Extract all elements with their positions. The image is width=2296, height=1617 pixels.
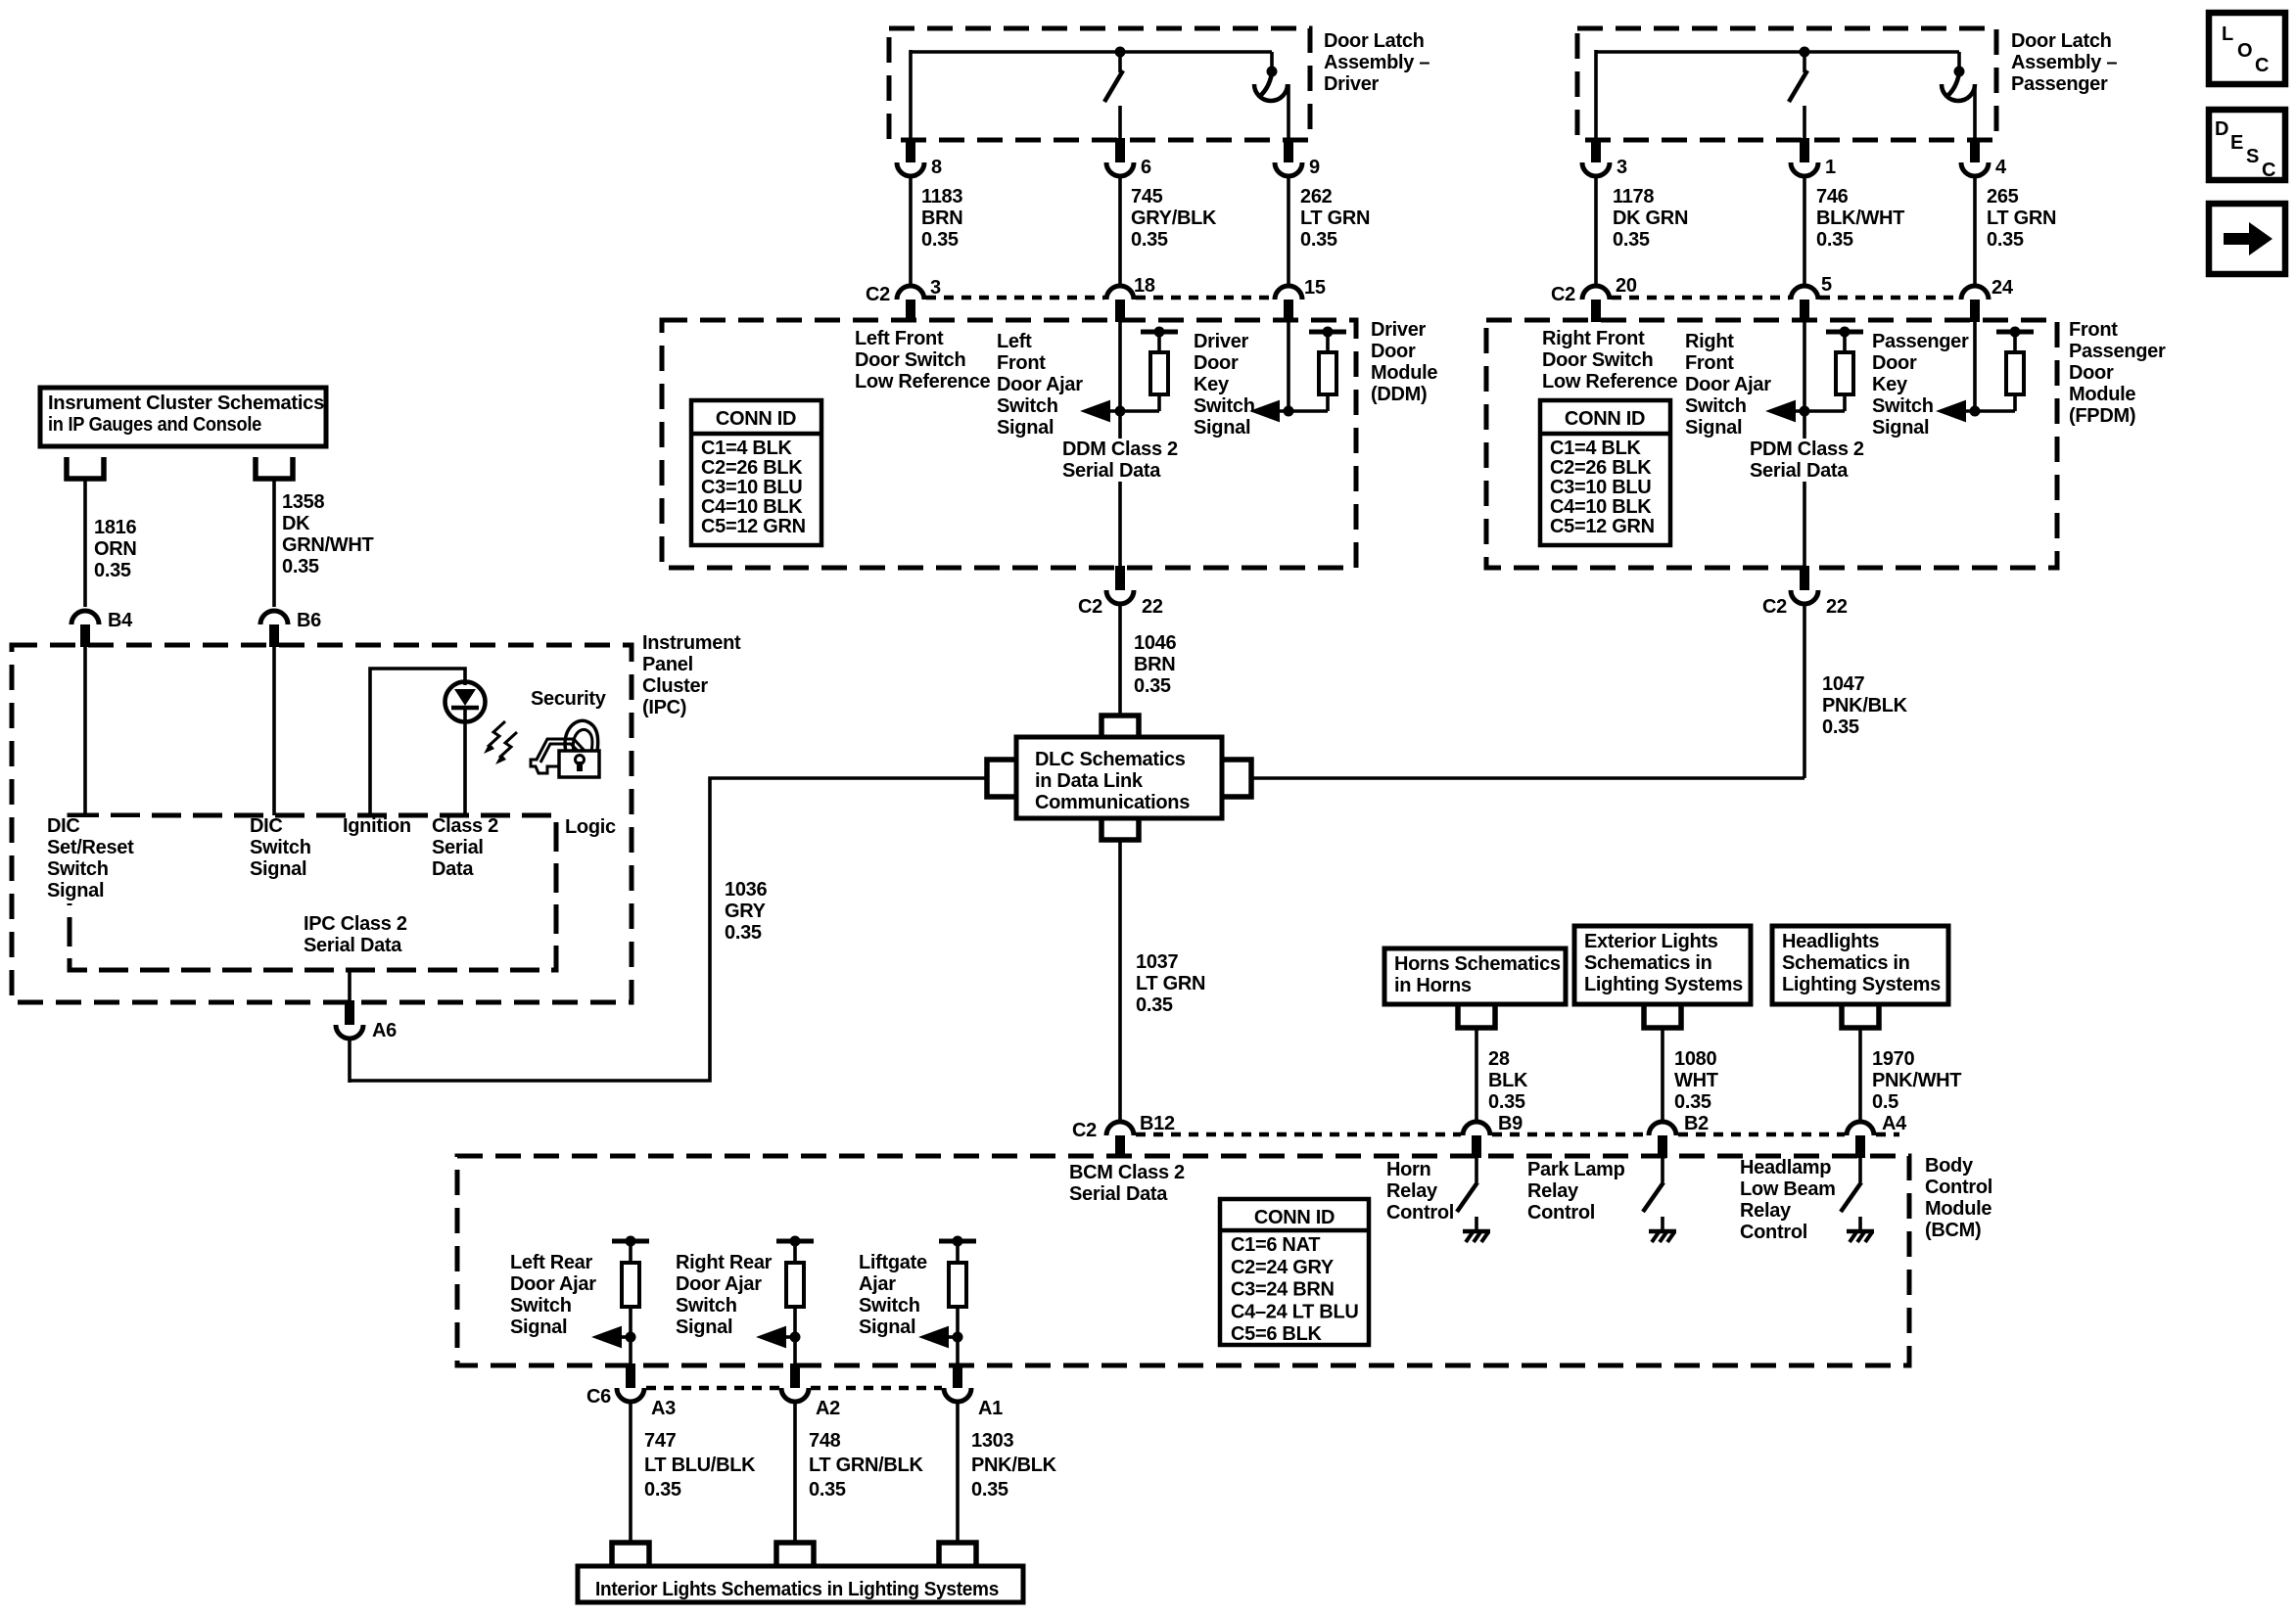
svg-text:0.35: 0.35 — [725, 922, 762, 944]
switch: park lamp relay control — [1643, 1156, 1676, 1242]
LED emission arrows — [484, 721, 517, 764]
svg-text:C1=4 BLK: C1=4 BLK — [701, 438, 792, 459]
table: CONN ID (DDM) — [691, 400, 821, 545]
node: driver latch junction — [1115, 47, 1126, 58]
svg-text:Door Ajar: Door Ajar — [510, 1273, 596, 1295]
switch: horn relay control — [1457, 1156, 1490, 1242]
switch: passenger door ajar switch blade — [1947, 73, 1959, 96]
connector C2 pin 18 (DDM) — [1106, 275, 1155, 322]
wire: passenger key switch junction with arrow — [1939, 401, 2015, 421]
svg-text:Body: Body — [1925, 1155, 1974, 1177]
label: Ignition — [343, 815, 411, 837]
svg-text:22: 22 — [1142, 596, 1163, 618]
svg-text:PDM Class 2: PDM Class 2 — [1750, 439, 1864, 460]
svg-text:Passenger: Passenger — [1872, 331, 1969, 352]
box: Driver Door Module DDM (dashed) — [662, 320, 1356, 568]
wire: DDM pin 15 internal — [1287, 320, 1290, 411]
box: Body Control Module BCM (dashed) — [457, 1156, 1909, 1365]
svg-text:Driver: Driver — [1371, 319, 1427, 341]
svg-text:Door: Door — [1872, 352, 1917, 374]
svg-text:A6: A6 — [372, 1020, 397, 1041]
connector C2 pin 22 (DDM bottom) — [1078, 566, 1163, 618]
connector bracket: IC box right drop — [256, 457, 293, 479]
svg-text:(FPDM): (FPDM) — [2069, 405, 2135, 427]
svg-text:Door Ajar: Door Ajar — [1685, 374, 1771, 395]
svg-text:LT GRN: LT GRN — [1300, 208, 1370, 229]
svg-text:28: 28 — [1488, 1048, 1510, 1070]
svg-text:Horns Schematics: Horns Schematics — [1394, 953, 1561, 975]
connector C6 A1 (BCM bottom) — [944, 1363, 1003, 1419]
svg-text:Control: Control — [1386, 1202, 1454, 1224]
svg-text:C2: C2 — [1551, 284, 1575, 305]
svg-text:in Data Link: in Data Link — [1035, 770, 1144, 792]
resistor: Left Rear Door Ajar pull-up — [612, 1236, 649, 1338]
svg-text:0.35: 0.35 — [1488, 1091, 1525, 1113]
wire: ignition branch — [370, 669, 465, 815]
wire 746 BLK/WHT 0.35 — [1804, 176, 1904, 285]
svg-text:1178: 1178 — [1613, 186, 1654, 208]
connector C2 pin 5 (PDM) — [1791, 274, 1832, 322]
svg-text:Switch: Switch — [1872, 395, 1934, 417]
svg-text:C1=6 NAT: C1=6 NAT — [1231, 1234, 1320, 1256]
svg-text:C2=26 BLK: C2=26 BLK — [1550, 457, 1652, 479]
box: Headlights Schematics in Lighting Systems — [1772, 926, 1948, 1004]
label: PDM Class 2 Serial Data — [1747, 439, 1874, 482]
svg-text:Door: Door — [1194, 352, 1239, 374]
svg-text:Schematics in: Schematics in — [1782, 952, 1910, 974]
svg-text:BRN: BRN — [921, 208, 962, 229]
svg-text:BCM Class 2: BCM Class 2 — [1069, 1162, 1185, 1183]
svg-text:Interior Lights Schematics in: Interior Lights Schematics in Lighting S… — [595, 1579, 999, 1600]
svg-text:Module: Module — [1925, 1198, 1991, 1220]
svg-text:20: 20 — [1616, 275, 1637, 297]
resistor: Right Rear Door Ajar pull-up — [776, 1236, 814, 1338]
svg-text:1303: 1303 — [971, 1430, 1013, 1452]
svg-text:Switch: Switch — [1685, 395, 1747, 417]
label: Body Control Module (BCM) — [1925, 1155, 1992, 1241]
svg-text:Signal: Signal — [997, 417, 1054, 439]
svg-text:Exterior Lights: Exterior Lights — [1584, 931, 1718, 952]
connector row dotted line (DDM C2) — [926, 296, 1273, 300]
svg-text:Switch: Switch — [859, 1295, 920, 1317]
svg-text:Ajar: Ajar — [859, 1273, 896, 1295]
wire: DDM pin 18 serial data internal — [1118, 320, 1122, 568]
svg-text:Signal: Signal — [859, 1317, 915, 1338]
resistor: Liftgate Ajar pull-up — [939, 1236, 976, 1338]
svg-text:C3=24 BRN: C3=24 BRN — [1231, 1279, 1335, 1301]
connector C2 pin 20 (PDM) — [1551, 275, 1637, 322]
svg-text:Park Lamp: Park Lamp — [1527, 1159, 1625, 1180]
svg-text:D: D — [2215, 118, 2228, 140]
wire: driver latch internal bus — [911, 50, 1272, 140]
svg-text:Key: Key — [1872, 374, 1908, 395]
svg-text:DK GRN: DK GRN — [1613, 208, 1688, 229]
connector B6 (IPC) — [260, 610, 321, 647]
wire: Liftgate ajar junction with arrow — [921, 1327, 963, 1347]
svg-text:C: C — [2262, 160, 2275, 181]
box: Door Latch Assembly - Passenger (dashed) — [1577, 28, 1996, 140]
label: Left Rear Door Ajar Switch Signal — [510, 1252, 596, 1338]
svg-text:0.35: 0.35 — [1613, 229, 1650, 251]
svg-text:Logic: Logic — [565, 816, 616, 838]
connector bracket: interior lights drop A2 — [776, 1543, 814, 1566]
svg-text:C5=6 BLK: C5=6 BLK — [1231, 1323, 1322, 1345]
svg-text:S: S — [2246, 146, 2259, 167]
svg-text:Switch: Switch — [47, 858, 109, 880]
svg-text:1183: 1183 — [921, 186, 962, 208]
svg-text:Assembly –: Assembly – — [1324, 52, 1429, 73]
svg-text:6: 6 — [1141, 157, 1151, 178]
svg-text:DIC: DIC — [250, 815, 283, 837]
svg-text:Front: Front — [997, 352, 1046, 374]
svg-text:Assembly –: Assembly – — [2011, 52, 2117, 73]
svg-text:ORN: ORN — [94, 538, 137, 560]
svg-text:262: 262 — [1300, 186, 1333, 208]
svg-text:0.35: 0.35 — [94, 560, 131, 581]
svg-text:1080: 1080 — [1674, 1048, 1716, 1070]
svg-text:Right: Right — [1685, 331, 1734, 352]
svg-text:A3: A3 — [651, 1398, 676, 1419]
wire: B4 to logic box — [83, 645, 87, 815]
svg-text:WHT: WHT — [1674, 1070, 1718, 1091]
svg-text:0.35: 0.35 — [644, 1479, 681, 1501]
svg-text:L: L — [2222, 23, 2233, 45]
connector pin 1 (passenger latch) — [1791, 138, 1836, 178]
icon: security car and padlock — [531, 720, 599, 777]
svg-text:Instrument: Instrument — [642, 632, 741, 654]
connector pin 6 (driver latch) — [1106, 138, 1151, 178]
svg-text:Set/Reset: Set/Reset — [47, 837, 134, 858]
svg-text:Right Front: Right Front — [1542, 328, 1645, 349]
svg-text:C4=10 BLK: C4=10 BLK — [1550, 496, 1652, 518]
label: Passenger Door Key Switch Signal — [1872, 331, 1969, 439]
svg-text:Driver: Driver — [1324, 73, 1380, 95]
label: Front Passenger Door Module (FPDM) — [2069, 319, 2166, 427]
svg-text:LT GRN: LT GRN — [1136, 973, 1205, 994]
svg-text:DK: DK — [282, 513, 310, 534]
label: Driver Door Module (DDM) — [1371, 319, 1437, 405]
svg-text:0.35: 0.35 — [921, 229, 959, 251]
svg-text:Door: Door — [1371, 341, 1416, 362]
svg-text:(DDM): (DDM) — [1371, 384, 1427, 405]
svg-text:3: 3 — [930, 277, 941, 299]
wire 28 BLK 0.35 — [1476, 1028, 1528, 1122]
resistor: right front door ajar pull-up — [1826, 327, 1863, 412]
svg-text:Door: Door — [2069, 362, 2114, 384]
label: Left Front Door Ajar Switch Signal — [997, 331, 1083, 439]
connector C2 pin 15 (DDM) — [1275, 277, 1326, 322]
svg-text:LT BLU/BLK: LT BLU/BLK — [644, 1455, 756, 1476]
table: CONN ID (PDM) — [1540, 400, 1670, 545]
svg-text:Serial Data: Serial Data — [304, 935, 402, 956]
svg-text:B4: B4 — [108, 610, 133, 631]
wire: Liftgate signal to C6 row — [956, 1337, 960, 1365]
svg-text:PNK/WHT: PNK/WHT — [1872, 1070, 1961, 1091]
svg-text:C: C — [2255, 55, 2269, 76]
svg-text:(BCM): (BCM) — [1925, 1220, 1981, 1241]
svg-text:Lighting Systems: Lighting Systems — [1782, 974, 1941, 995]
connector row dotted line (BCM top) — [1136, 1132, 1899, 1137]
connector pin 3 (passenger latch) — [1582, 138, 1627, 178]
svg-text:Left Front: Left Front — [855, 328, 944, 349]
wire 262 LT GRN 0.35 — [1289, 176, 1370, 285]
svg-text:B2: B2 — [1684, 1113, 1709, 1134]
svg-text:Low Reference: Low Reference — [855, 371, 991, 393]
svg-text:24: 24 — [1991, 277, 2014, 299]
wire: PDM pin 24 internal — [1973, 320, 1977, 411]
svg-text:0.35: 0.35 — [1134, 675, 1171, 697]
svg-text:Security: Security — [531, 688, 607, 710]
icon box: forward arrow — [2209, 204, 2285, 274]
svg-text:0.35: 0.35 — [282, 556, 319, 577]
connector A4 (BCM) — [1847, 1113, 1907, 1158]
svg-text:745: 745 — [1131, 186, 1163, 208]
connector C2 pin 22 (PDM bottom) — [1762, 566, 1848, 618]
wire 1047 PNK/BLK 0.35 — [1804, 604, 1908, 778]
svg-text:Control: Control — [1740, 1222, 1807, 1243]
connector row dotted line (BCM bottom C6) — [646, 1386, 942, 1391]
svg-text:(IPC): (IPC) — [642, 697, 686, 718]
svg-text:C6: C6 — [586, 1386, 611, 1408]
svg-text:Switch: Switch — [1194, 395, 1255, 417]
switch: headlamp low beam relay control — [1841, 1156, 1874, 1242]
svg-text:3: 3 — [1617, 157, 1627, 178]
svg-text:C2=24 GRY: C2=24 GRY — [1231, 1257, 1335, 1278]
label: Driver Door Key Switch Signal — [1194, 331, 1255, 439]
svg-text:C4=10 BLK: C4=10 BLK — [701, 496, 803, 518]
svg-text:Communications: Communications — [1035, 792, 1190, 813]
box: Exterior Lights Schematics in Lighting Systems — [1574, 926, 1751, 1004]
svg-text:Door Switch: Door Switch — [1542, 349, 1653, 371]
wire 1183 BRN 0.35 — [911, 176, 962, 285]
label: Horn Relay Control — [1386, 1159, 1454, 1224]
svg-text:IPC Class 2: IPC Class 2 — [304, 913, 407, 935]
svg-text:Switch: Switch — [676, 1295, 737, 1317]
svg-text:0.35: 0.35 — [1816, 229, 1853, 251]
label: Class 2 Serial Data — [432, 815, 498, 880]
connector B4 (IPC) — [71, 610, 133, 647]
svg-text:Door Latch: Door Latch — [1324, 30, 1425, 52]
wire 1080 WHT 0.35 — [1663, 1028, 1718, 1122]
svg-text:C4–24 LT BLU: C4–24 LT BLU — [1231, 1301, 1359, 1322]
svg-text:DLC Schematics: DLC Schematics — [1035, 749, 1186, 770]
svg-text:Relay: Relay — [1740, 1200, 1792, 1222]
svg-text:0.35: 0.35 — [1136, 994, 1173, 1016]
box: Insrument Cluster Schematics in IP Gauges and Console — [40, 388, 326, 446]
wire: Left Rear ajar junction with arrow — [594, 1327, 636, 1347]
svg-text:Serial Data: Serial Data — [1750, 460, 1849, 482]
connector A6 (IPC bottom) — [336, 1000, 397, 1041]
wire 1046 BRN 0.35 — [1120, 604, 1176, 716]
svg-text:GRY: GRY — [725, 901, 767, 922]
node: passenger latch junction — [1800, 47, 1810, 58]
wire 1036 GRY 0.35 (DLC to IPC) — [350, 778, 987, 1081]
svg-text:Signal: Signal — [510, 1317, 567, 1338]
svg-text:CONN ID: CONN ID — [1565, 408, 1645, 430]
connector pin 9 (driver latch) — [1275, 138, 1320, 178]
svg-text:Ignition: Ignition — [343, 815, 411, 837]
switch: passenger door latch switch (pin 1 leg) — [1789, 52, 1807, 140]
svg-text:0.5: 0.5 — [1872, 1091, 1898, 1113]
svg-text:A4: A4 — [1882, 1113, 1907, 1134]
svg-text:Signal: Signal — [250, 858, 306, 880]
svg-text:in Horns: in Horns — [1394, 975, 1472, 996]
box: Instrument Panel Cluster IPC (dashed) — [12, 645, 632, 1002]
switch: driver door latch switch (pin 6 leg) — [1104, 52, 1123, 140]
label: Right Front Door Ajar Switch Signal — [1685, 331, 1771, 439]
svg-text:1: 1 — [1825, 157, 1836, 178]
svg-text:18: 18 — [1134, 275, 1155, 297]
svg-text:Front: Front — [1685, 352, 1734, 374]
label: BCM Class 2 Serial Data — [1069, 1162, 1185, 1205]
connector bracket: exterior lights drop — [1644, 1006, 1681, 1028]
svg-text:0.35: 0.35 — [971, 1479, 1008, 1501]
svg-text:Signal: Signal — [1872, 417, 1929, 439]
wire: A6 to DLC joint — [348, 1039, 351, 1083]
svg-text:PNK/BLK: PNK/BLK — [971, 1455, 1057, 1476]
svg-text:9: 9 — [1309, 157, 1320, 178]
connector C2 B12 (BCM) — [1072, 1113, 1175, 1158]
svg-text:Schematics in: Schematics in — [1584, 952, 1712, 974]
wire 1816 ORN 0.35 — [85, 479, 137, 607]
svg-text:15: 15 — [1304, 277, 1326, 299]
svg-text:Low Reference: Low Reference — [1542, 371, 1678, 393]
connector pin 8 (driver latch) — [897, 138, 942, 178]
svg-text:Data: Data — [432, 858, 474, 880]
svg-text:C1=4 BLK: C1=4 BLK — [1550, 438, 1641, 459]
svg-text:746: 746 — [1816, 186, 1849, 208]
label: C6 connector — [586, 1386, 611, 1408]
wire: IPC class 2 serial data out — [348, 970, 351, 1002]
connector bracket: DLC top — [1101, 716, 1139, 737]
svg-text:0.35: 0.35 — [1822, 716, 1859, 738]
svg-text:1046: 1046 — [1134, 632, 1176, 654]
label: Right Front Door Switch Low Reference — [1542, 328, 1678, 393]
svg-text:8: 8 — [931, 157, 942, 178]
wire 1970 PNK/WHT 0.5 — [1860, 1028, 1961, 1122]
connector bracket: IC box left drop — [67, 457, 104, 479]
wire 745 GRY/BLK 0.35 — [1120, 176, 1217, 285]
wire: B6 to logic box — [272, 645, 276, 815]
svg-text:1816: 1816 — [94, 517, 136, 538]
svg-text:747: 747 — [644, 1430, 677, 1452]
svg-text:C5=12 GRN: C5=12 GRN — [701, 516, 806, 537]
wire: Right Rear ajar junction with arrow — [759, 1327, 801, 1347]
table: CONN ID (BCM) — [1220, 1199, 1369, 1345]
svg-text:C2: C2 — [866, 284, 890, 305]
svg-text:Signal: Signal — [1194, 417, 1250, 439]
connector B9 (BCM) — [1463, 1113, 1523, 1158]
connector bracket: headlights drop — [1842, 1006, 1879, 1028]
svg-text:Module: Module — [1371, 362, 1437, 384]
label: IPC Class 2 Serial Data — [304, 913, 407, 956]
connector C6 A2 (BCM bottom) — [781, 1363, 840, 1419]
svg-text:Passenger: Passenger — [2011, 73, 2108, 95]
svg-text:0.35: 0.35 — [1674, 1091, 1711, 1113]
label: DDM Class 2 Serial Data — [1059, 439, 1187, 482]
wire 748 LT GRN/BLK 0.35 — [795, 1402, 923, 1544]
connector bracket: DLC right — [1222, 760, 1251, 797]
resistor: driver door key switch pull-up — [1309, 327, 1346, 412]
svg-text:C2: C2 — [1762, 596, 1787, 618]
svg-text:265: 265 — [1987, 186, 2019, 208]
label: Logic — [565, 816, 616, 838]
svg-text:C5=12 GRN: C5=12 GRN — [1550, 516, 1655, 537]
svg-text:Left: Left — [997, 331, 1032, 352]
wire: Right Rear signal to C6 row — [793, 1337, 797, 1365]
svg-text:PNK/BLK: PNK/BLK — [1822, 695, 1908, 716]
connector C6 A3 (BCM bottom) — [617, 1363, 676, 1419]
svg-text:Relay: Relay — [1527, 1180, 1579, 1202]
wire: ajar signal junction with arrow — [1083, 401, 1159, 421]
svg-text:0.35: 0.35 — [1300, 229, 1337, 251]
svg-text:1036: 1036 — [725, 879, 767, 901]
svg-text:0.35: 0.35 — [1131, 229, 1168, 251]
svg-text:Switch: Switch — [997, 395, 1058, 417]
label: Left Front Door Switch Low Reference — [855, 328, 991, 393]
connector pin 4 (passenger latch) — [1961, 138, 2007, 178]
label: Security — [531, 688, 607, 710]
connector bracket: interior lights drop A3 — [612, 1543, 649, 1566]
label: Door Latch Assembly - Passenger — [2011, 30, 2117, 95]
label: Right Rear Door Ajar Switch Signal — [676, 1252, 773, 1338]
svg-text:Headlamp: Headlamp — [1740, 1157, 1831, 1178]
svg-text:A1: A1 — [978, 1398, 1003, 1419]
svg-text:Switch: Switch — [510, 1295, 572, 1317]
connector B2 (BCM) — [1649, 1113, 1709, 1158]
svg-text:CONN ID: CONN ID — [716, 408, 796, 430]
svg-text:Left Rear: Left Rear — [510, 1252, 593, 1273]
wire: PDM pin 5 serial data internal — [1803, 320, 1806, 568]
label: Door Latch Assembly - Driver — [1324, 30, 1429, 95]
connector bracket: DLC bottom — [1101, 818, 1139, 840]
svg-text:Lighting Systems: Lighting Systems — [1584, 974, 1743, 995]
svg-text:Signal: Signal — [1685, 417, 1742, 439]
svg-text:DDM Class 2: DDM Class 2 — [1062, 439, 1178, 460]
svg-text:Right Rear: Right Rear — [676, 1252, 773, 1273]
node: passenger ajar switch pivot — [1954, 52, 1965, 77]
svg-text:C3=10 BLU: C3=10 BLU — [701, 477, 802, 498]
connector bracket: interior lights drop A1 — [939, 1543, 976, 1566]
svg-text:B12: B12 — [1140, 1113, 1175, 1134]
svg-text:Serial: Serial — [432, 837, 484, 858]
box: Horns Schematics in Horns — [1384, 948, 1566, 1004]
wire: right ajar signal junction with arrow — [1768, 401, 1845, 421]
connector bracket: horns drop — [1458, 1006, 1495, 1028]
wire 1037 LT GRN 0.35 (DLC to BCM) — [1120, 840, 1205, 1122]
svg-text:Switch: Switch — [250, 837, 311, 858]
svg-text:C2=26 BLK: C2=26 BLK — [701, 457, 803, 479]
svg-text:4: 4 — [1995, 157, 2007, 178]
connector row dotted line (PDM C2) — [1612, 296, 1959, 300]
svg-text:B9: B9 — [1498, 1113, 1523, 1134]
svg-text:Headlights: Headlights — [1782, 931, 1879, 952]
label: DIC Set/Reset Switch Signal — [43, 815, 151, 903]
svg-text:O: O — [2237, 40, 2252, 62]
svg-text:Low Beam: Low Beam — [1740, 1178, 1836, 1200]
svg-text:Front: Front — [2069, 319, 2118, 341]
svg-text:Insrument Cluster Schematics: Insrument Cluster Schematics — [48, 393, 324, 414]
wire 265 LT GRN 0.35 — [1975, 176, 2056, 285]
svg-text:C2: C2 — [1078, 596, 1102, 618]
resistor: left front door ajar pull-up — [1141, 327, 1178, 412]
svg-text:Panel: Panel — [642, 654, 693, 675]
icon box: DESC — [2209, 110, 2285, 181]
svg-text:Signal: Signal — [47, 880, 104, 901]
node: driver ajar switch pivot — [1267, 52, 1278, 77]
svg-text:LT GRN: LT GRN — [1987, 208, 2056, 229]
box: IPC Logic (dashed) — [70, 815, 556, 970]
